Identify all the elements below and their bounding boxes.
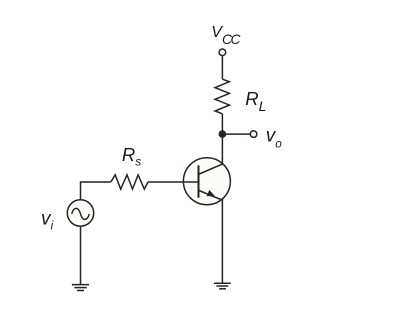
transistor Q1: [183, 158, 230, 205]
terminal VCC: [219, 49, 226, 56]
wire: [81, 182, 111, 200]
wire: [221, 56, 223, 79]
wire: [221, 134, 223, 164]
wire: [80, 226, 82, 284]
source vi: [67, 200, 93, 226]
wire: [222, 133, 250, 135]
node collector-output junction: [219, 130, 227, 138]
wire: [221, 114, 223, 134]
wire: [221, 199, 223, 283]
wire: [148, 181, 199, 183]
resistor RL: [215, 79, 229, 114]
ground: [72, 285, 89, 291]
ground: [214, 283, 231, 289]
resistor Rs: [111, 175, 148, 189]
terminal vo: [250, 131, 257, 138]
